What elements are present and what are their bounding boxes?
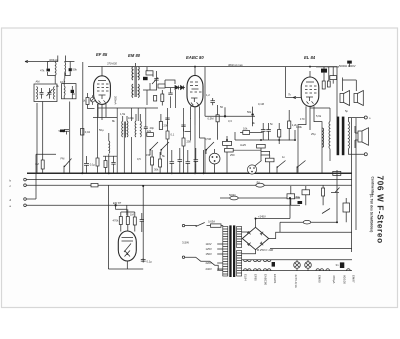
svg-text:30k: 30k	[154, 168, 159, 172]
electrolytic C23 50u	[287, 194, 295, 199]
capacitor C9 black	[143, 77, 148, 80]
coil L5	[126, 121, 129, 137]
wire EABC pin bends	[185, 131, 206, 173]
svg-text:50: 50	[220, 105, 223, 109]
output transformer left winding	[329, 122, 330, 149]
socket pin 1	[212, 156, 214, 158]
L4 core	[124, 122, 125, 138]
screen rail y67	[147, 66, 337, 68]
tap stub 125V	[217, 248, 223, 250]
capacitor C1 47k (black block)	[47, 69, 51, 72]
svg-text:EL84: EL84	[244, 274, 248, 281]
svg-text:5n: 5n	[270, 122, 273, 126]
svg-text:30: 30	[72, 92, 75, 96]
junction dot B	[251, 113, 253, 115]
choke L9	[322, 128, 324, 147]
wire resistor tops	[121, 209, 142, 232]
svg-text:3,3: 3,3	[228, 119, 232, 123]
junction dot m2	[260, 139, 262, 141]
tap stub 110V	[217, 243, 223, 245]
band switch S2 contact a	[150, 142, 158, 155]
triple tube EABC80 envelope	[187, 75, 203, 106]
mains switch S7	[185, 223, 205, 227]
svg-text:50k: 50k	[73, 68, 78, 72]
capacitor C15	[178, 158, 183, 164]
wire socket stub	[214, 149, 216, 173]
resistor R15	[322, 81, 325, 89]
wire x97 column	[97, 104, 99, 173]
svg-text:EL 84: EL 84	[304, 55, 316, 60]
resistor R6 0,5M	[216, 115, 219, 122]
wire L7 frame	[65, 56, 75, 79]
capacitor C16	[186, 160, 191, 166]
component box K2	[225, 148, 234, 152]
capacitor C29	[181, 125, 185, 131]
EABC80 socket pin marks	[191, 102, 199, 107]
P2 arrow	[91, 98, 94, 101]
wire antenna coil ground	[36, 103, 38, 173]
terminal e	[24, 204, 27, 207]
svg-text:500Ω: 500Ω	[229, 193, 236, 197]
heater H4	[316, 269, 324, 271]
wire primary top	[310, 108, 330, 161]
EL84 pin wires	[306, 71, 314, 130]
switch S5	[297, 161, 306, 174]
capacitor C10	[154, 76, 158, 83]
bus line c	[26, 184, 352, 186]
EL84 cathode	[306, 97, 313, 101]
svg-text:150V: 150V	[206, 252, 212, 256]
resistor R22 500 ohm oval	[230, 196, 238, 200]
svg-text:47k: 47k	[40, 69, 45, 73]
S7 dot	[195, 225, 197, 227]
main bus chassis (thick)	[27, 172, 352, 174]
svg-text:0,1µ: 0,1µ	[90, 163, 96, 167]
svg-text:(2. Teil des Schaltbildes): (2. Teil des Schaltbildes)	[370, 194, 374, 232]
IF coil L7	[64, 62, 67, 75]
capacitor C21	[140, 217, 144, 224]
svg-text:25µ: 25µ	[311, 132, 316, 136]
mains terminal N	[182, 256, 184, 258]
mains terminal L	[182, 224, 184, 226]
capacitor C11 small	[154, 96, 157, 102]
capacitor C22 0,1u	[141, 258, 146, 263]
resistor R8 20k	[159, 122, 162, 130]
box R17 on bus	[333, 171, 341, 175]
wire middle column x147	[146, 90, 148, 105]
phono socket circle	[209, 153, 220, 164]
wire mesh y150	[233, 149, 261, 151]
component box K5	[265, 158, 274, 162]
wire T3 links	[55, 78, 72, 99]
svg-text:500p: 500p	[59, 129, 65, 133]
svg-text:200mA: 200mA	[114, 96, 118, 105]
top rail wire y66 EF85 to EM80	[88, 66, 147, 68]
resistor R23	[322, 188, 325, 196]
wire bridge output top	[256, 199, 291, 228]
band switch S2 contact c	[206, 142, 214, 154]
svg-text:460kHz: 460kHz	[49, 58, 59, 62]
capacitor C32 black	[71, 90, 74, 93]
resistor R3 1k at EF85 cathode	[86, 98, 89, 105]
S3 dot	[253, 166, 255, 168]
svg-text:ECH81: ECH81	[273, 274, 277, 284]
resistor R10	[159, 159, 162, 167]
band switch S2 contact b	[161, 142, 169, 155]
IF can box T3	[62, 84, 77, 99]
wire magic eye bottom	[126, 261, 128, 269]
wire cluster x105	[106, 156, 114, 173]
capacitor C12 right of EABC80	[210, 98, 215, 105]
svg-text:3n: 3n	[336, 263, 339, 267]
EABC80 pin wires	[191, 67, 200, 125]
wire bridge output bottom	[242, 250, 256, 254]
EABC80 diode dashes	[190, 82, 198, 86]
wire EL84 bottom bends	[298, 122, 322, 174]
mains transformer primary winding	[223, 227, 228, 277]
resistor R20 1M	[126, 217, 129, 225]
svg-text:60/100: 60/100	[343, 275, 347, 284]
T5 right coil	[139, 121, 142, 137]
resistor R21 2M	[133, 217, 136, 225]
capacitor C28	[165, 118, 169, 124]
wire right column joins	[280, 198, 346, 232]
line y232	[280, 231, 352, 233]
svg-text:0,5M: 0,5M	[208, 117, 215, 121]
capacitor C4 under oscillator	[60, 130, 65, 133]
wire L4 T5 tops	[123, 114, 161, 122]
magic eye target screen	[122, 238, 134, 242]
bridge diode mark 1	[247, 231, 250, 234]
svg-text:50µ: 50µ	[99, 128, 104, 132]
heater H1	[244, 260, 252, 271]
heater rail bottom	[242, 270, 352, 272]
wire L6 frame	[48, 56, 58, 79]
junction dot m6	[171, 172, 173, 174]
capacitor C25 black	[298, 201, 303, 204]
wire C33 stub	[349, 64, 351, 67]
output terminal 1	[364, 116, 367, 119]
svg-text:0,04: 0,04	[85, 130, 91, 134]
wire mid horizontals	[205, 67, 255, 127]
EF85 grid dashes	[97, 84, 109, 91]
switch S3	[253, 161, 262, 174]
ratio detector box R4	[146, 71, 153, 75]
capacitor C17	[194, 158, 199, 164]
svg-text:50µ: 50µ	[296, 195, 301, 199]
svg-text:2µ: 2µ	[257, 180, 260, 184]
EL84 grid dashes	[305, 86, 317, 93]
S2 dot a	[150, 149, 152, 151]
svg-text:EF85: EF85	[253, 274, 257, 281]
heater secondary winding	[237, 251, 242, 277]
IF transformer T5 left coil	[134, 121, 137, 137]
LA1 cross	[295, 263, 300, 268]
wire rail corner to output transformer	[336, 67, 338, 117]
capacitor C20 black at EL84 screen	[321, 69, 327, 73]
mains lower wire	[185, 257, 223, 270]
stub line d	[26, 154, 56, 199]
resistor R11 10k box	[243, 131, 250, 135]
junction dot m3	[278, 139, 280, 141]
component box K1	[223, 141, 232, 145]
junction dot c4	[203, 172, 205, 174]
EABC80 triode grid	[190, 91, 202, 93]
bridge diode mark 4	[260, 242, 263, 245]
potentiometer P1 with arrow	[331, 188, 340, 193]
diode D2 of EABC80	[181, 86, 184, 90]
svg-text:5000Ω 1500V: 5000Ω 1500V	[339, 64, 356, 68]
bridge diode mark 3	[247, 243, 250, 246]
resistor R28	[96, 158, 99, 166]
svg-text:100p: 100p	[128, 116, 134, 120]
wire diodes left	[165, 80, 175, 88]
output terminal 2	[364, 153, 367, 156]
LA2 stubs	[307, 260, 309, 271]
diode D1 of EABC80	[173, 86, 185, 90]
line y222	[280, 221, 337, 223]
heater rail top	[242, 259, 352, 261]
wafer pin 3	[251, 171, 253, 173]
junction dot top rail	[309, 66, 311, 68]
resistor R16	[327, 81, 330, 87]
svg-text:EABC80: EABC80	[263, 274, 267, 285]
svg-text:0,5: 0,5	[137, 157, 141, 161]
IF coil L6	[54, 62, 57, 75]
resistor R19 470k	[119, 217, 122, 225]
EF85 socket pin marks	[99, 100, 106, 103]
wire sp3	[355, 126, 358, 148]
tap stub 150V	[217, 253, 223, 255]
junction dot c6	[336, 221, 338, 223]
oval R24	[303, 220, 311, 224]
wire b+ cluster	[291, 170, 337, 222]
wire detector cluster	[143, 67, 157, 90]
output transformer right winding	[348, 122, 349, 149]
switch wafer circle	[247, 165, 256, 174]
svg-text:EM80: EM80	[318, 275, 322, 283]
junction dot c2	[142, 185, 144, 187]
capacitor C19	[266, 127, 271, 134]
svg-text:2x7V-0,1A: 2x7V-0,1A	[294, 275, 298, 288]
heater H3	[263, 260, 271, 271]
resistor R26	[166, 131, 169, 139]
svg-text:1,5k: 1,5k	[120, 112, 126, 116]
NTC box R25	[343, 203, 350, 212]
wire splitter cluster	[235, 110, 295, 144]
magic eye cathode dot	[126, 253, 128, 255]
LA2 cross	[306, 263, 311, 268]
power pentode EL84 envelope	[301, 77, 319, 106]
terminal b	[24, 178, 27, 181]
svg-text:EABC 80: EABC 80	[186, 55, 204, 60]
input arrow to EL84 grid	[286, 67, 302, 99]
EF85 pin wires	[98, 66, 106, 120]
resistor R5	[161, 94, 164, 102]
junction dot m4	[294, 139, 296, 141]
oval choke F1 on bus	[256, 183, 264, 187]
switch S4	[277, 161, 286, 174]
junction dot c7	[255, 218, 257, 220]
oscillator coil L1	[36, 87, 39, 100]
speaker SP3	[358, 128, 369, 146]
svg-text:Continental: Continental	[371, 177, 375, 195]
resistor R2	[104, 161, 107, 168]
oscillator coil L2	[53, 87, 56, 100]
junction dot magic eye feed	[114, 204, 116, 206]
S2 dot b	[161, 149, 163, 151]
EABC80 anode bar	[192, 88, 199, 90]
bus line e	[26, 204, 300, 206]
svg-text:125V: 125V	[206, 247, 212, 251]
bus line b	[26, 179, 352, 181]
capacitor C26 across rails	[272, 262, 275, 267]
resistor R1 1M vertical	[41, 160, 44, 169]
svg-text:370-630: 370-630	[107, 62, 117, 66]
capacitor C33 black top right	[347, 61, 352, 64]
wire L3	[108, 133, 110, 173]
capacitor C7 0,1u	[84, 161, 89, 168]
junction dot c1	[108, 172, 110, 174]
resistor R18 on line c	[91, 184, 98, 187]
junction dot rail EABC	[194, 66, 196, 68]
IF coil L8	[63, 86, 66, 96]
capacitor C5 500p	[64, 130, 69, 135]
HT secondary winding	[237, 227, 242, 248]
wire comb mid columns	[152, 148, 203, 173]
oscillator box outline	[34, 84, 57, 102]
AM coil L4	[121, 121, 124, 137]
junction dot c5	[289, 197, 291, 199]
capacitor C13 40p	[144, 126, 148, 131]
antenna input arrow	[25, 60, 49, 62]
resistor R27	[182, 138, 185, 146]
wire R3	[88, 93, 95, 109]
svg-text:50k: 50k	[247, 110, 252, 114]
wire speakers feed	[343, 78, 357, 92]
svg-text:1,2: 1,2	[206, 93, 210, 97]
svg-text:220V: 220V	[206, 261, 212, 265]
wire oscillator down	[43, 102, 70, 174]
resistor R7 12k box	[147, 133, 154, 137]
svg-text:1n: 1n	[282, 155, 285, 159]
wire T4 top	[132, 63, 136, 67]
svg-text:300mA max: 300mA max	[228, 63, 243, 67]
svg-text:12k: 12k	[147, 129, 152, 133]
wire magic eye verticals	[108, 185, 143, 269]
T4 right coil	[138, 67, 139, 98]
S5 dot	[297, 166, 299, 168]
svg-text:250: 250	[230, 153, 235, 157]
svg-text:3,5W: 3,5W	[182, 241, 189, 245]
variable capacitor C3 with arrow	[47, 88, 53, 99]
wire boxes columns	[227, 136, 270, 173]
trimmer pot P2	[90, 97, 95, 102]
svg-text:0,1M: 0,1M	[258, 102, 265, 106]
svg-text:706 W F-Stereo: 706 W F-Stereo	[376, 176, 385, 244]
wafer pin 1	[249, 167, 251, 169]
svg-text:EM 80: EM 80	[128, 53, 141, 58]
trimmer capacitor C2	[40, 88, 44, 99]
component box K3	[257, 144, 266, 148]
svg-text:+245V: +245V	[258, 215, 266, 219]
svg-text:EM87: EM87	[352, 275, 356, 283]
switch dot S1	[64, 166, 66, 168]
svg-text:470µA: 470µA	[332, 275, 336, 283]
detector box R29	[158, 84, 165, 88]
EF85 cathode	[99, 95, 106, 99]
output transformer core bar 2	[342, 117, 345, 156]
electrolytic C24 50u	[302, 190, 310, 195]
resistor R13 1,2k	[288, 121, 291, 129]
magic eye deflection pointer	[124, 244, 131, 253]
svg-text:0,1µ: 0,1µ	[147, 260, 153, 264]
capacitor C8	[111, 161, 115, 167]
junction dot A	[224, 115, 226, 117]
wire fuse to transformer	[207, 226, 223, 227]
wire right verticals down	[351, 118, 356, 252]
S4 dot	[277, 166, 279, 168]
line y248	[270, 247, 352, 249]
wire EL84 top cluster	[316, 67, 339, 84]
mains transformer core bar 1	[229, 225, 231, 277]
junction dot m5	[194, 172, 196, 174]
svg-text:110V: 110V	[206, 242, 212, 246]
magic eye tube EM80 envelope	[118, 231, 136, 261]
wire bridge right	[269, 232, 280, 238]
wire R1 to bus	[42, 169, 44, 173]
wire secondary to terminals	[348, 118, 364, 155]
terminal c	[24, 184, 27, 187]
component box K4	[261, 151, 270, 155]
resistor R9	[151, 157, 154, 165]
band switch S1	[64, 159, 72, 173]
magic eye heater cross	[125, 251, 131, 257]
wire detector extra	[170, 88, 172, 108]
speaker SP2	[354, 91, 363, 106]
socket pin 2	[216, 156, 218, 158]
junction dot m1	[226, 139, 228, 141]
svg-text:470k: 470k	[113, 219, 119, 223]
wire vertical x86 lower	[86, 156, 88, 173]
capacitor C31 black	[69, 68, 72, 71]
svg-text:25k: 25k	[187, 140, 192, 144]
terminal d	[24, 198, 27, 201]
svg-text:5p: 5p	[345, 109, 348, 113]
rectifier bridge B250C100	[242, 227, 268, 249]
socket pin 3	[214, 160, 216, 162]
svg-text:240V: 240V	[206, 267, 212, 271]
svg-text:0,1: 0,1	[171, 133, 175, 137]
pentode EF85 envelope	[94, 76, 111, 105]
wire P2	[92, 95, 94, 105]
resistor R12	[278, 130, 281, 138]
capacitor C30	[168, 93, 172, 99]
S2 dot c	[206, 149, 208, 151]
svg-text:B 250 C 100: B 250 C 100	[257, 248, 273, 252]
B+ line y198	[220, 197, 300, 199]
LA1 stubs	[296, 260, 298, 271]
wire R6 column	[217, 105, 219, 140]
EL84 anode	[306, 81, 314, 83]
svg-text:5,6k: 5,6k	[316, 114, 322, 118]
capacitor C14	[170, 160, 175, 166]
junction dot c3	[81, 172, 83, 174]
resistor R14 box	[330, 76, 337, 80]
coil L3	[109, 141, 110, 153]
svg-text:EM 87: EM 87	[113, 201, 122, 205]
svg-text:4x25: 4x25	[240, 143, 246, 147]
